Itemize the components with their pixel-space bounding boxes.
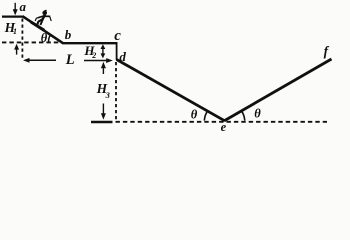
angle arc right of e [241, 110, 245, 120]
wire dashed vertical below a [21, 19, 23, 61]
wire top ledge at a [2, 16, 23, 18]
dimension H1 top down-arrow [13, 3, 18, 16]
wire slope a-b [23, 16, 64, 43]
svg-text:b: b [65, 27, 72, 42]
wire dashed vertical below d [115, 62, 117, 121]
svg-text:a: a [20, 0, 27, 14]
wire bottom datum solid segment [91, 121, 113, 123]
svg-text:θ: θ [41, 31, 48, 45]
svg-text:θ: θ [191, 108, 198, 122]
wire slope d-e [117, 60, 225, 121]
dimension H3 top up-arrow [101, 62, 106, 74]
svg-text:2: 2 [91, 51, 96, 60]
dimension L left arrow [23, 58, 56, 63]
svg-text:θ: θ [254, 107, 261, 121]
svg-text:L: L [65, 52, 75, 68]
wire slope e-f [224, 59, 331, 121]
svg-text:e: e [221, 120, 227, 134]
wire horizontal b-c [62, 42, 117, 44]
wire vertical c-d [116, 42, 118, 60]
svg-text:1: 1 [13, 27, 17, 36]
wire dashed horizontal through b [2, 41, 61, 43]
angle arc at b [49, 35, 51, 43]
dimension H3 bottom down-arrow [101, 104, 106, 120]
wire dashed horizontal through e [116, 121, 328, 123]
skier figure on slope a-b [31, 10, 51, 30]
dimension L right arrow [84, 58, 113, 63]
dimension H2 double arrow [101, 44, 106, 58]
svg-text:3: 3 [105, 90, 111, 100]
svg-text:d: d [119, 49, 126, 64]
dimension H1 bottom up-arrow [14, 44, 19, 55]
angle arc left of e [204, 111, 207, 121]
svg-text:c: c [114, 28, 121, 44]
